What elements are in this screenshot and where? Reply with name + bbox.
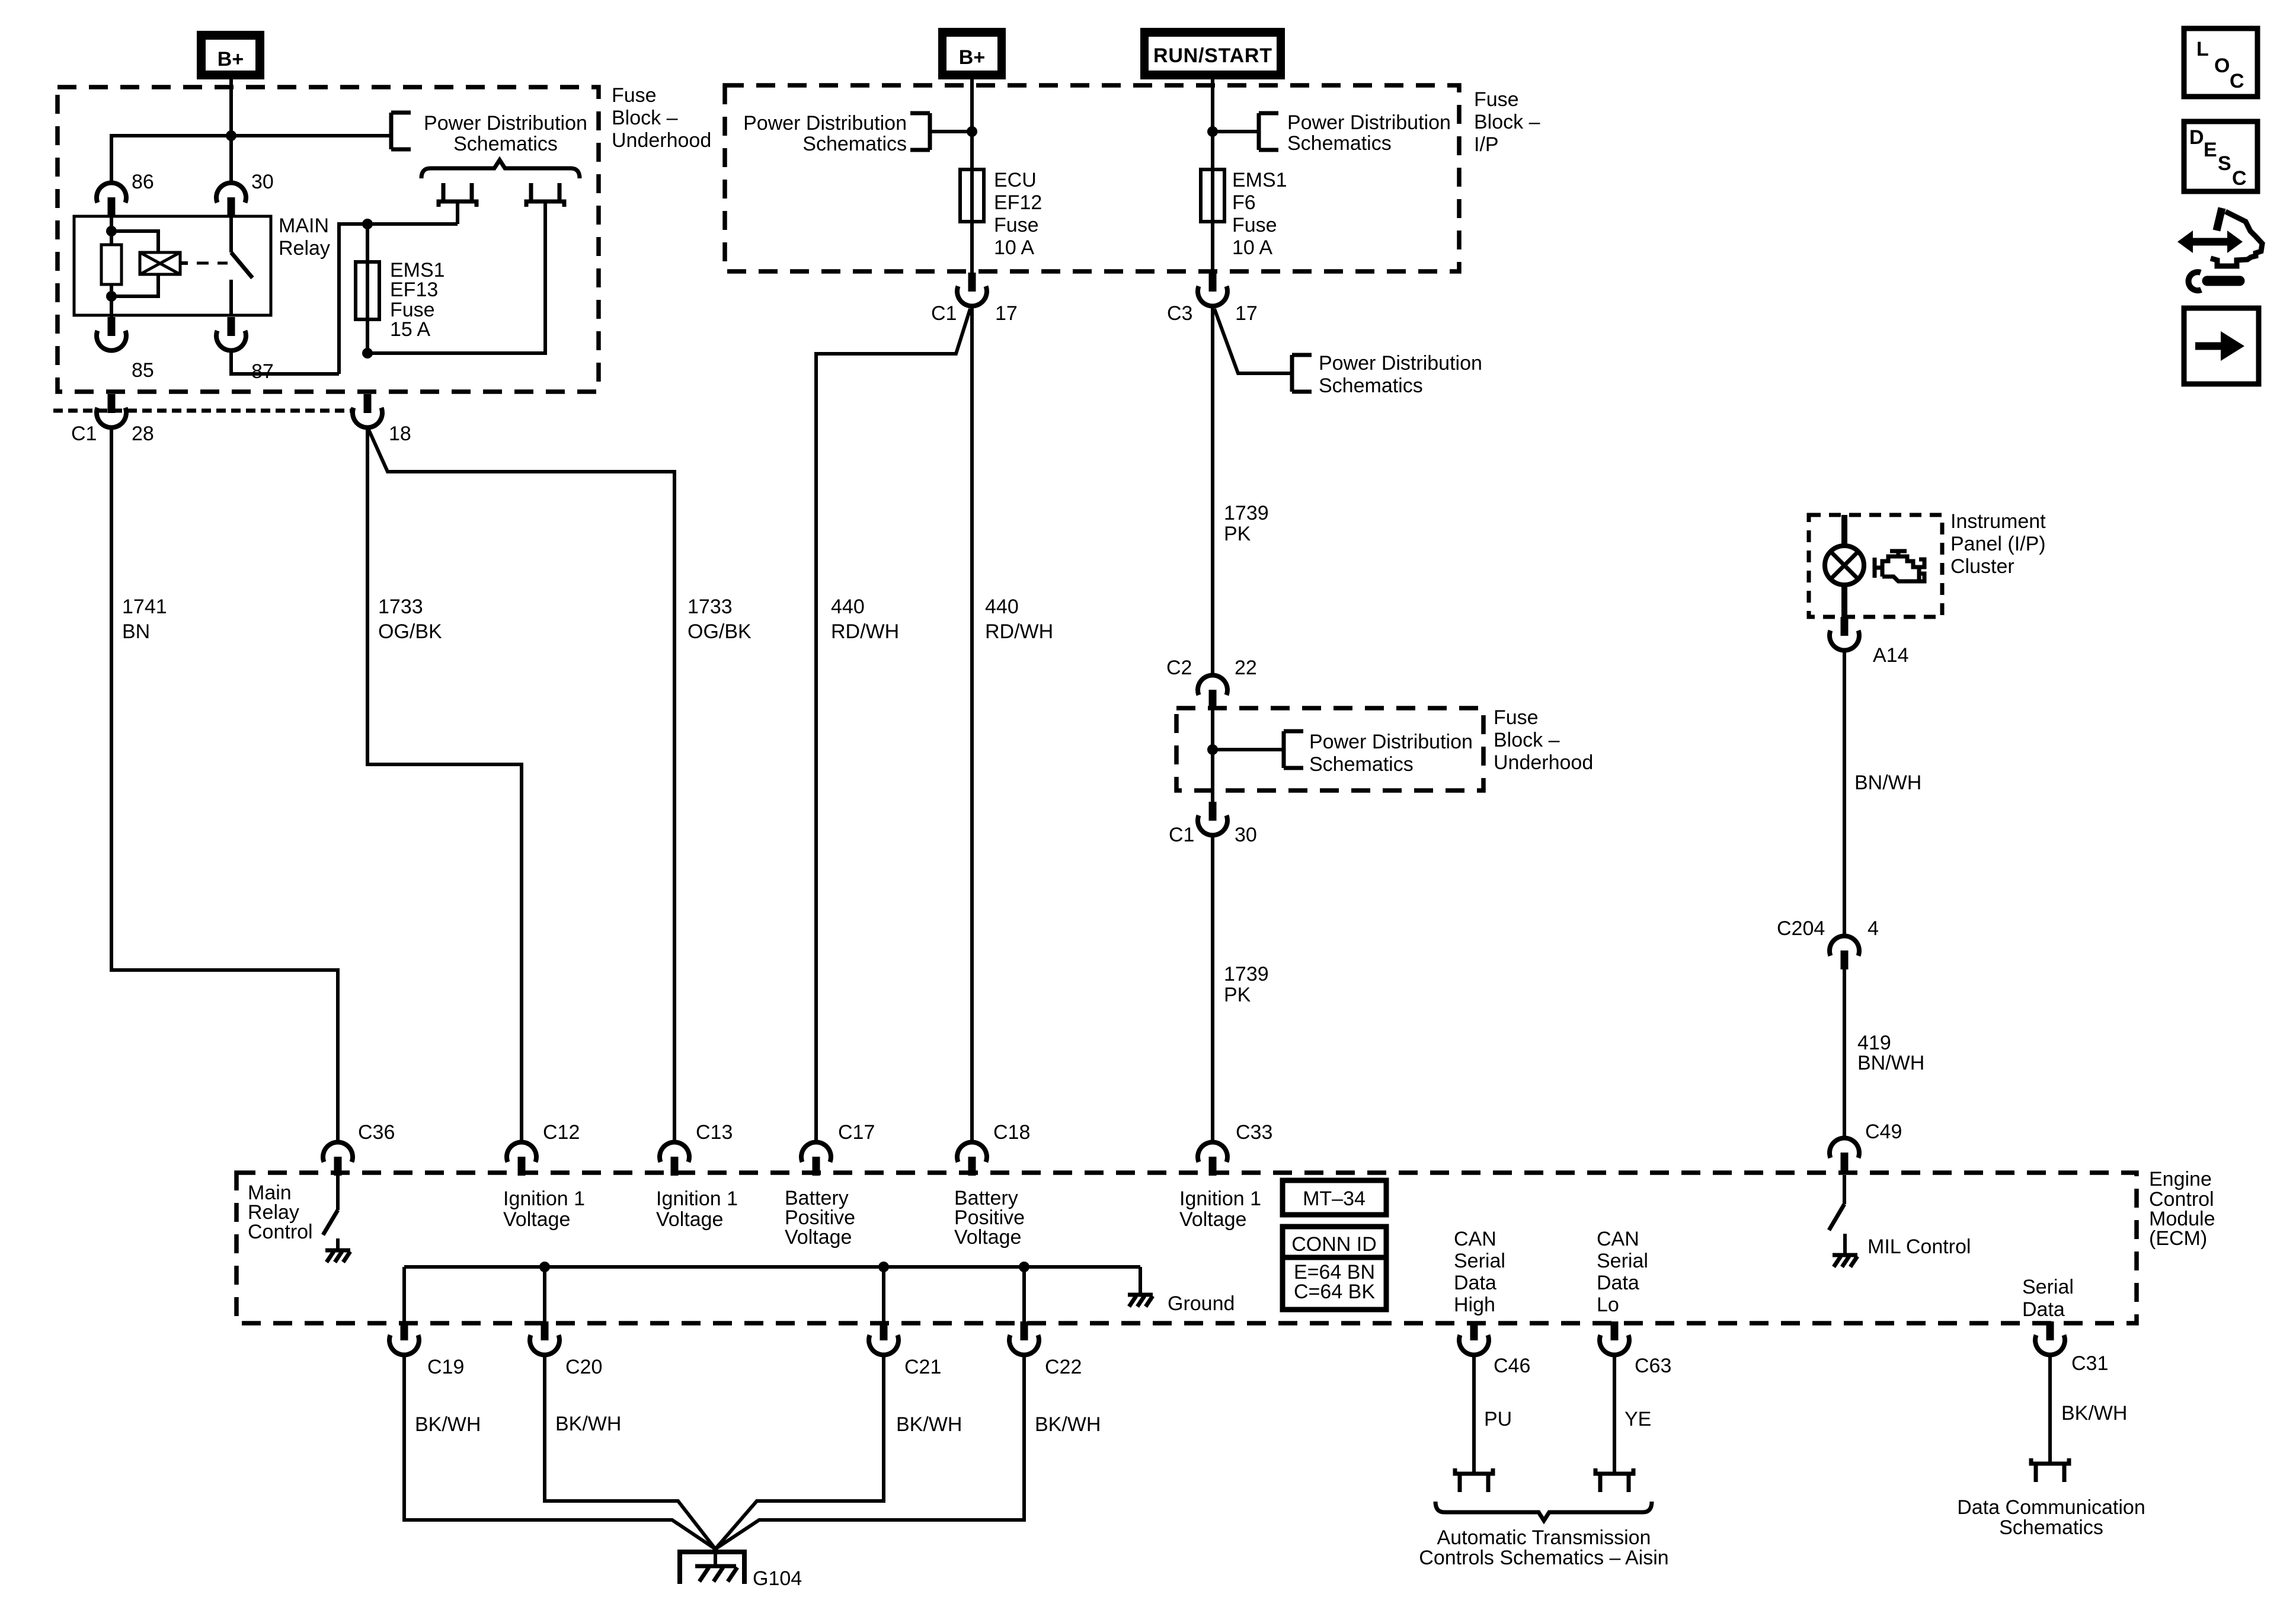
- connector C22: [1009, 1321, 1082, 1378]
- svg-text:10 A: 10 A: [1232, 236, 1272, 259]
- svg-text:1739: 1739: [1224, 502, 1269, 524]
- svg-text:Serial: Serial: [1597, 1250, 1648, 1272]
- wire junction to bracket left: [930, 130, 972, 133]
- wire 1739 PK upper: [1213, 307, 1269, 674]
- svg-text:Controls Schematics – Aisin: Controls Schematics – Aisin: [1419, 1547, 1668, 1569]
- svg-text:C2: C2: [1166, 657, 1192, 679]
- svg-text:C=64 BK: C=64 BK: [1294, 1281, 1375, 1303]
- fuse EMS1 F6 10A: [1201, 169, 1287, 259]
- svg-text:440: 440: [831, 596, 865, 618]
- svg-text:EMS1: EMS1: [1232, 169, 1287, 191]
- schematic reference bracket C3: [1292, 355, 1312, 392]
- svg-text:Engine: Engine: [2149, 1168, 2212, 1190]
- svg-text:30: 30: [1235, 824, 1257, 846]
- connector C1 pin 28: [71, 394, 154, 445]
- svg-text:BK/WH: BK/WH: [1035, 1413, 1101, 1436]
- connector C12: [507, 1121, 580, 1176]
- svg-text:ECU: ECU: [994, 169, 1037, 191]
- svg-text:E: E: [2204, 139, 2217, 161]
- wire coil parallel branch top: [111, 231, 158, 252]
- switch main relay control driver: [323, 1176, 338, 1249]
- label CAN Serial Data Lo: [1597, 1228, 1648, 1316]
- wire through fuse block 2: [1211, 709, 1214, 802]
- label Fuse Block Underhood 2: [1494, 706, 1593, 774]
- svg-text:Power Distribution: Power Distribution: [424, 112, 587, 135]
- svg-text:BK/WH: BK/WH: [555, 1413, 621, 1435]
- wire coil parallel branch bottom: [111, 274, 158, 296]
- svg-text:L: L: [2196, 38, 2209, 60]
- svg-text:Power Distribution: Power Distribution: [1309, 731, 1473, 753]
- svg-text:C19: C19: [427, 1356, 464, 1378]
- node fuse EF13 top: [362, 219, 373, 229]
- wire BN/WH: [1844, 651, 1921, 935]
- label Power Distribution Schematics fb2: [1309, 731, 1473, 776]
- connector C1 pin 30: [1169, 802, 1257, 846]
- svg-text:18: 18: [389, 422, 411, 445]
- svg-text:Power Distribution: Power Distribution: [1319, 352, 1482, 375]
- label Data Communication Schematics: [1957, 1496, 2145, 1539]
- svg-text:15 A: 15 A: [390, 318, 430, 341]
- connector C31: [2035, 1321, 2108, 1375]
- box MT-34: [1283, 1180, 1386, 1215]
- wire 1733 OG/BK left: [367, 428, 522, 1141]
- svg-text:C21: C21: [904, 1356, 941, 1378]
- svg-text:OG/BK: OG/BK: [378, 620, 442, 643]
- connector C20: [530, 1321, 602, 1378]
- wire 440 RD/WH right: [972, 307, 1053, 1141]
- svg-text:Voltage: Voltage: [785, 1226, 852, 1249]
- svg-text:EF13: EF13: [390, 279, 438, 301]
- icon vehicle double arrow: [2177, 231, 2243, 253]
- schematic reference bracket B+2: [910, 113, 930, 150]
- connector pin 87: [216, 317, 274, 383]
- svg-text:Ignition 1: Ignition 1: [1179, 1188, 1261, 1210]
- wire junction to pin30: [229, 136, 233, 182]
- svg-text:Power Distribution: Power Distribution: [1287, 111, 1451, 134]
- svg-text:Fuse: Fuse: [994, 214, 1039, 236]
- brace power distribution feeds: [421, 160, 580, 178]
- icon DESC box: [2184, 121, 2257, 191]
- svg-text:PK: PK: [1224, 984, 1251, 1006]
- svg-text:(ECM): (ECM): [2149, 1227, 2207, 1250]
- node fuse EF13 bottom: [362, 348, 373, 359]
- label Instrument Panel Cluster: [1950, 510, 2046, 578]
- svg-text:PU: PU: [1484, 1408, 1512, 1430]
- node B+2 junction: [967, 126, 977, 137]
- svg-text:4: 4: [1868, 917, 1879, 940]
- svg-text:BK/WH: BK/WH: [2061, 1402, 2127, 1425]
- wire BK/WH C22: [715, 1356, 1101, 1549]
- label Fuse Block Underhood: [612, 84, 711, 152]
- wire terminal1 to rail: [456, 201, 459, 224]
- svg-text:C63: C63: [1635, 1355, 1671, 1377]
- ground bus wire: [404, 1265, 1140, 1269]
- svg-text:Voltage: Voltage: [503, 1208, 570, 1231]
- svg-text:17: 17: [1235, 302, 1258, 325]
- svg-text:Fuse: Fuse: [1232, 214, 1277, 236]
- svg-text:1733: 1733: [687, 596, 733, 618]
- wire 87 run to riser: [231, 351, 339, 374]
- svg-text:85: 85: [132, 359, 154, 382]
- svg-text:BN: BN: [122, 620, 150, 643]
- svg-text:Voltage: Voltage: [656, 1208, 723, 1231]
- wire junction to bracket right: [1213, 130, 1259, 133]
- ground G104: [680, 1549, 802, 1590]
- svg-text:Schematics: Schematics: [1287, 132, 1392, 155]
- svg-text:10 A: 10 A: [994, 236, 1034, 259]
- connector C1 pin 17: [931, 273, 1018, 325]
- label Engine Control Module ECM: [2149, 1168, 2215, 1250]
- node coil top: [106, 226, 117, 236]
- wire relay actuator link: [180, 261, 228, 265]
- svg-text:Serial: Serial: [1454, 1250, 1505, 1272]
- label Ignition 1 Voltage C13: [656, 1188, 738, 1231]
- relay switch blade: [231, 252, 252, 278]
- node bus C21: [878, 1262, 889, 1272]
- svg-text:87: 87: [251, 360, 274, 383]
- svg-text:Schematics: Schematics: [1999, 1516, 2103, 1539]
- svg-text:A14: A14: [1873, 644, 1909, 667]
- relay MAIN Relay box: [74, 215, 330, 315]
- svg-text:Block –: Block –: [612, 107, 678, 129]
- fuse block IP dashed box: [725, 85, 1459, 271]
- svg-text:C1: C1: [931, 302, 957, 325]
- svg-text:Voltage: Voltage: [954, 1226, 1021, 1249]
- wire RUN/START down: [1211, 79, 1214, 273]
- node bus C22: [1019, 1262, 1029, 1272]
- svg-text:C12: C12: [543, 1121, 580, 1144]
- connector C19: [389, 1321, 464, 1378]
- schematic reference bracket RUN/START: [1259, 113, 1278, 150]
- svg-text:RUN/START: RUN/START: [1153, 44, 1272, 67]
- node coil bottom: [106, 291, 117, 302]
- label Automatic Transmission Controls: [1419, 1526, 1668, 1569]
- svg-text:CONN ID: CONN ID: [1291, 1233, 1377, 1256]
- svg-text:Block –: Block –: [1474, 111, 1540, 133]
- resistor relay coil winding: [101, 245, 121, 284]
- svg-text:CAN: CAN: [1597, 1228, 1639, 1250]
- label Power Distribution Schematics RUN/START: [1287, 111, 1451, 155]
- svg-text:OG/BK: OG/BK: [687, 620, 752, 643]
- wire BK/WH serial data: [2050, 1356, 2127, 1464]
- svg-text:C1: C1: [71, 422, 97, 445]
- connector C17: [801, 1121, 875, 1176]
- svg-text:Instrument: Instrument: [1950, 510, 2046, 533]
- label Power Distribution Schematics B+2: [743, 112, 907, 155]
- svg-text:C13: C13: [696, 1121, 733, 1144]
- wire 1741 BN: [111, 428, 338, 1141]
- ECM dashed box: [236, 1173, 2137, 1323]
- svg-text:C: C: [2232, 167, 2247, 190]
- svg-text:C3: C3: [1167, 302, 1192, 325]
- svg-text:G104: G104: [753, 1567, 802, 1590]
- svg-text:17: 17: [995, 302, 1018, 325]
- svg-text:440: 440: [985, 596, 1019, 618]
- svg-text:Serial: Serial: [2022, 1276, 2074, 1298]
- svg-text:BK/WH: BK/WH: [896, 1413, 962, 1436]
- wire PU: [1474, 1356, 1512, 1474]
- svg-text:Data: Data: [2022, 1298, 2065, 1321]
- wire bus drop C21: [882, 1267, 885, 1321]
- svg-text:Schematics: Schematics: [802, 133, 907, 155]
- svg-text:Schematics: Schematics: [1309, 753, 1414, 776]
- wire B+ to junction: [229, 79, 233, 136]
- connector C18: [957, 1121, 1030, 1176]
- wire bus drop C19: [402, 1267, 406, 1321]
- svg-text:Ignition 1: Ignition 1: [503, 1188, 585, 1210]
- svg-text:Data Communication: Data Communication: [1957, 1496, 2145, 1519]
- svg-text:B+: B+: [218, 48, 244, 71]
- svg-text:MAIN: MAIN: [279, 215, 329, 237]
- svg-text:BN/WH: BN/WH: [1857, 1052, 1924, 1074]
- connector A14: [1830, 617, 1909, 667]
- fuse EMS1 EF13 15A: [356, 259, 445, 341]
- svg-text:C20: C20: [565, 1356, 602, 1378]
- label Fuse Block IP: [1474, 88, 1540, 156]
- wire 1739 PK lower: [1213, 836, 1269, 1141]
- instrument panel cluster dashed box: [1809, 515, 1942, 617]
- svg-text:YE: YE: [1625, 1408, 1651, 1430]
- wire YE: [1614, 1356, 1651, 1474]
- wire bus drop C20: [543, 1267, 546, 1321]
- icon wrench: [2189, 272, 2240, 290]
- connector C13: [660, 1121, 733, 1176]
- svg-text:Panel (I/P): Panel (I/P): [1950, 533, 2046, 555]
- wire BK/WH C20: [545, 1356, 715, 1549]
- svg-text:Fuse: Fuse: [1494, 706, 1539, 729]
- RUN/START terminal box: [1140, 28, 1285, 79]
- connector C49: [1830, 1121, 1902, 1172]
- svg-text:Underhood: Underhood: [612, 129, 711, 152]
- label Battery Positive Voltage C18: [954, 1187, 1025, 1249]
- wire bus drop C22: [1022, 1267, 1026, 1321]
- B+ terminal box 1: [197, 31, 264, 79]
- wire fuse bottom to terminal 2: [367, 201, 545, 353]
- svg-text:MT–34: MT–34: [1303, 1188, 1366, 1210]
- label Power Distribution Schematics C3: [1319, 352, 1482, 397]
- node RUN/START junction: [1207, 126, 1218, 137]
- wire B+2 down: [970, 79, 974, 273]
- wire coil bottom: [110, 284, 113, 317]
- label Power Distribution Schematics: [424, 112, 587, 155]
- icon arrow box: [2184, 308, 2259, 384]
- svg-text:PK: PK: [1224, 523, 1251, 545]
- svg-text:Ignition 1: Ignition 1: [656, 1188, 738, 1210]
- svg-text:Data: Data: [1454, 1272, 1496, 1294]
- svg-text:C33: C33: [1236, 1121, 1272, 1144]
- svg-text:1739: 1739: [1224, 963, 1269, 985]
- svg-text:Schematics: Schematics: [1319, 375, 1423, 397]
- terminal feed 1: [439, 183, 477, 207]
- node B+ junction: [226, 130, 236, 141]
- svg-text:86: 86: [132, 171, 154, 193]
- connector C46: [1459, 1321, 1530, 1377]
- svg-text:MIL Control: MIL Control: [1868, 1235, 1971, 1258]
- svg-text:1733: 1733: [378, 596, 423, 618]
- fuse block underhood dashed box: [57, 87, 599, 392]
- svg-text:CAN: CAN: [1454, 1228, 1496, 1250]
- label Ignition 1 Voltage C12: [503, 1188, 585, 1231]
- connector C3 pin 17: [1167, 273, 1258, 325]
- node bus C20: [539, 1262, 550, 1272]
- svg-text:Control: Control: [248, 1221, 313, 1243]
- label Ignition 1 Voltage C33: [1179, 1188, 1261, 1231]
- svg-text:Block –: Block –: [1494, 729, 1560, 751]
- svg-text:EF12: EF12: [994, 191, 1042, 214]
- svg-text:Relay: Relay: [279, 237, 330, 260]
- label Serial Data: [2022, 1276, 2074, 1321]
- connector C36: [323, 1121, 395, 1176]
- svg-text:C46: C46: [1494, 1355, 1530, 1377]
- wire junction to pin86: [111, 136, 231, 182]
- svg-text:B+: B+: [959, 46, 985, 69]
- terminal C46 off page: [1455, 1468, 1493, 1492]
- svg-text:F6: F6: [1232, 191, 1256, 214]
- terminal C31 off page: [2031, 1458, 2069, 1482]
- svg-text:Underhood: Underhood: [1494, 751, 1593, 774]
- svg-text:C31: C31: [2071, 1352, 2108, 1375]
- lamp MIL bulb: [1825, 546, 1864, 585]
- svg-text:Fuse: Fuse: [612, 84, 657, 107]
- switch MIL driver: [1829, 1175, 1845, 1253]
- wire 440 RD/WH left branch: [816, 309, 970, 1141]
- label Main Relay Control: [248, 1182, 313, 1243]
- wire riser to fuse top rail: [339, 224, 458, 374]
- ground main relay control: [325, 1250, 350, 1262]
- svg-text:C18: C18: [993, 1121, 1030, 1144]
- fuse ECU EF12 10A: [960, 169, 1042, 259]
- connector C33: [1198, 1121, 1272, 1176]
- svg-text:419: 419: [1857, 1032, 1891, 1054]
- wire junction to bracket: [231, 134, 391, 137]
- label CAN Serial Data High: [1454, 1228, 1505, 1316]
- terminal feed 2: [526, 183, 564, 207]
- fuse block underhood dashed box 2: [1176, 708, 1483, 790]
- relay switch contact lower: [229, 280, 233, 315]
- svg-text:Cluster: Cluster: [1950, 555, 2014, 578]
- wire 1733 OG/BK right: [369, 430, 752, 1141]
- wire C3 diagonal to bracket: [1214, 309, 1292, 373]
- svg-text:Automatic Transmission: Automatic Transmission: [1437, 1526, 1651, 1549]
- wire bus to ground: [1139, 1267, 1142, 1293]
- svg-text:O: O: [2214, 55, 2230, 77]
- svg-text:C: C: [2230, 70, 2244, 92]
- connector C21: [869, 1321, 941, 1378]
- connector C204 pin 4: [1777, 917, 1879, 969]
- svg-text:High: High: [1454, 1294, 1495, 1316]
- wire pin86 into coil: [110, 216, 113, 245]
- box CONN ID: [1283, 1227, 1386, 1310]
- relay switch contact upper: [229, 216, 233, 252]
- schematic reference bracket fb2: [1284, 731, 1303, 768]
- wire BK/WH C21: [715, 1356, 962, 1549]
- connector row dashed line C1: [53, 409, 354, 413]
- svg-text:BK/WH: BK/WH: [415, 1413, 481, 1436]
- svg-text:C36: C36: [358, 1121, 395, 1144]
- svg-text:Data: Data: [1597, 1272, 1639, 1294]
- svg-text:C1: C1: [1169, 824, 1194, 846]
- svg-text:1741: 1741: [122, 596, 167, 618]
- wire cluster feed stub: [1841, 515, 1847, 546]
- wire junction to bracket fb2: [1213, 748, 1284, 751]
- svg-text:Schematics: Schematics: [453, 133, 558, 155]
- ground ECM internal: [1128, 1292, 1235, 1315]
- brace automatic transmission: [1435, 1502, 1652, 1521]
- svg-text:C204: C204: [1777, 917, 1825, 940]
- connector pin 30: [216, 171, 274, 216]
- svg-text:S: S: [2218, 152, 2231, 175]
- wire BK/WH C19: [404, 1356, 715, 1549]
- ground MIL control: [1833, 1235, 1971, 1267]
- label Battery Positive Voltage C17: [785, 1187, 855, 1249]
- svg-text:RD/WH: RD/WH: [831, 620, 899, 643]
- svg-text:D: D: [2189, 126, 2204, 149]
- wire 419 BN/WH: [1844, 969, 1924, 1137]
- svg-text:Voltage: Voltage: [1179, 1208, 1246, 1231]
- wire bulb to box edge: [1841, 585, 1847, 617]
- connector pin 86: [97, 171, 154, 216]
- relay coil box with X: [140, 252, 180, 274]
- terminal C63 off page: [1595, 1468, 1633, 1492]
- icon vehicle outline: [2211, 208, 2262, 266]
- svg-text:30: 30: [251, 171, 274, 193]
- svg-text:I/P: I/P: [1474, 133, 1499, 156]
- icon check engine: [1875, 551, 1924, 581]
- schematic reference bracket (Power Distribution): [391, 113, 411, 149]
- icon LOC box: [2184, 28, 2257, 97]
- connector C1 pin 18: [353, 394, 411, 445]
- node fuse block 2 junction: [1207, 744, 1218, 755]
- svg-text:Fuse: Fuse: [1474, 88, 1519, 111]
- connector C2 pin 22: [1166, 657, 1257, 709]
- B+ terminal box 2: [938, 28, 1006, 79]
- svg-text:C49: C49: [1865, 1121, 1902, 1143]
- connector C63: [1600, 1321, 1671, 1377]
- svg-text:22: 22: [1235, 657, 1257, 679]
- svg-text:Ground: Ground: [1168, 1292, 1235, 1315]
- svg-text:BN/WH: BN/WH: [1854, 772, 1921, 794]
- svg-text:RD/WH: RD/WH: [985, 620, 1053, 643]
- svg-text:28: 28: [132, 422, 154, 445]
- wire fuse EF13 lead: [366, 224, 369, 353]
- svg-text:Lo: Lo: [1597, 1294, 1619, 1316]
- connector pin 85: [97, 317, 154, 382]
- svg-text:C17: C17: [838, 1121, 875, 1144]
- svg-text:C22: C22: [1045, 1356, 1082, 1378]
- svg-text:Power Distribution: Power Distribution: [743, 112, 907, 135]
